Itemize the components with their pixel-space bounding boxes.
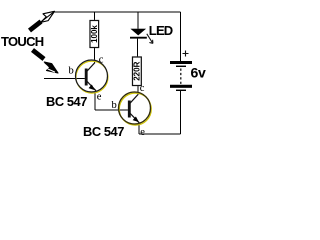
Q2 collector stroke xyxy=(129,95,138,105)
transistor Q1 BC547 xyxy=(69,55,109,103)
svg-text:BC 547: BC 547 xyxy=(83,124,124,139)
battery plate short negative top xyxy=(176,66,186,67)
svg-text:b: b xyxy=(69,66,74,77)
wire battery positive lead xyxy=(180,12,182,61)
wire LED cathode to R2 xyxy=(137,39,139,58)
wire Q1 emitter down xyxy=(94,91,96,110)
svg-text:100k: 100k xyxy=(90,25,99,43)
Q2 base bar xyxy=(128,101,131,118)
battery B1 xyxy=(170,51,192,92)
svg-text:e: e xyxy=(140,127,145,138)
LED emission arrow xyxy=(147,34,153,44)
battery plate short negative bottom xyxy=(176,90,186,91)
touch arrow lower xyxy=(33,50,59,73)
battery plus sign xyxy=(183,51,189,57)
Q1 base bar xyxy=(85,69,88,86)
svg-text:220R: 220R xyxy=(133,61,142,80)
LED xyxy=(130,29,153,44)
Q1 emitter stroke xyxy=(86,81,96,91)
wire Q1 emitter to Q2 base xyxy=(95,109,129,111)
resistor R1 100k xyxy=(90,21,99,48)
svg-text:e: e xyxy=(97,92,102,103)
Q2 emitter arrowhead xyxy=(133,117,139,123)
wire R1 top lead xyxy=(94,12,96,21)
svg-text:LED: LED xyxy=(149,23,173,38)
Q1 emitter arrowhead xyxy=(89,85,95,91)
svg-text:BC 547: BC 547 xyxy=(46,94,87,109)
transistor Q2 BC547 xyxy=(112,83,152,138)
touch arrow upper xyxy=(30,11,55,30)
battery plate long positive top xyxy=(170,61,192,64)
wire battery negative lead xyxy=(180,91,182,134)
Q1 collector stroke xyxy=(86,63,95,73)
wire R2 bottom lead to Q2 collector xyxy=(137,86,139,96)
svg-text:c: c xyxy=(140,83,145,94)
Q2 emitter stroke xyxy=(129,113,139,123)
wire Q2 emitter down xyxy=(138,123,140,134)
svg-text:TOUCH: TOUCH xyxy=(1,34,44,49)
wire bottom return xyxy=(139,133,180,135)
wire LED top lead xyxy=(137,12,139,29)
wire Q1 base lead (touch contact) xyxy=(44,78,86,80)
svg-text:b: b xyxy=(112,100,117,111)
svg-text:c: c xyxy=(99,55,104,66)
wire R1 bottom lead to Q1 collector xyxy=(94,48,96,64)
battery dashed cell link xyxy=(180,69,182,85)
battery plate long positive bottom xyxy=(170,85,192,88)
resistor R2 220R xyxy=(133,57,142,86)
svg-text:6v: 6v xyxy=(191,65,206,81)
wire top rail xyxy=(55,11,181,13)
